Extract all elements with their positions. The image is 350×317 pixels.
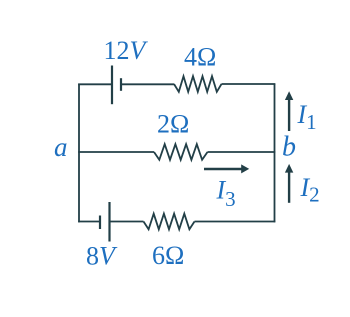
battery B1 12V positive plate (long) — [111, 66, 113, 105]
svg-text:b: b — [282, 132, 296, 163]
wire top middle segment — [121, 83, 174, 85]
resistor R2 2Ω zigzag — [154, 144, 208, 160]
wire bottom left segment — [78, 221, 100, 223]
wire bottom right segment — [195, 221, 276, 223]
svg-text:12V: 12V — [104, 36, 149, 65]
wire bottom middle segment — [110, 221, 144, 223]
svg-text:4Ω: 4Ω — [184, 43, 216, 72]
svg-text:8V: 8V — [86, 242, 118, 271]
wire middle left segment (node a to R2) — [78, 151, 154, 153]
resistor R3 6Ω zigzag — [144, 214, 195, 230]
wire top left segment — [78, 83, 112, 85]
wire top right segment — [222, 83, 276, 85]
svg-text:6Ω: 6Ω — [152, 241, 184, 270]
battery B2 8V positive plate (long) — [108, 202, 110, 242]
wire left vertical (a branch) — [78, 84, 80, 223]
svg-text:I3: I3 — [216, 176, 236, 212]
svg-text:I1: I1 — [297, 100, 317, 134]
svg-text:a: a — [54, 132, 68, 162]
current arrow I3 (right, below middle wire) — [204, 164, 249, 173]
svg-text:2Ω: 2Ω — [157, 110, 189, 139]
battery B1 12V negative plate (short) — [120, 78, 122, 91]
wire right vertical (b branch) — [274, 84, 276, 223]
svg-text:I2: I2 — [300, 173, 320, 207]
battery B2 8V negative plate (short) — [99, 216, 101, 230]
wire middle right segment (R2 to node b) — [208, 151, 276, 153]
resistor R1 4Ω zigzag — [174, 76, 222, 92]
current arrow I2 (up, right of bottom-right wire) — [285, 164, 293, 203]
current arrow I1 (up, right of top-right wire) — [285, 91, 293, 131]
